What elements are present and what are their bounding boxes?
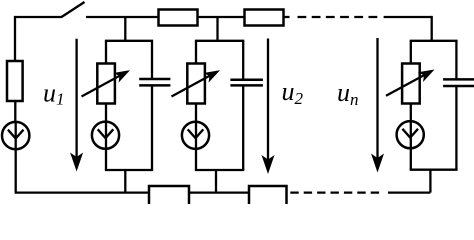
capacitor C1 top plate <box>139 78 170 81</box>
wire source branch bottom <box>15 149 17 192</box>
wire branch 1 bottom drop <box>124 170 126 193</box>
wire branch 2 left leg upper <box>195 41 197 64</box>
wire top rail left segment <box>15 17 62 61</box>
wire branch n left leg lower <box>410 104 412 170</box>
wire bottom rail dashed continuation <box>290 191 379 193</box>
arrowhead un <box>371 154 384 173</box>
current source I2 arrow chevron <box>188 129 204 138</box>
wire bottom rail left segment <box>15 191 149 193</box>
wire top rail stub after R2 <box>284 16 290 18</box>
arrowhead u1 <box>70 153 83 172</box>
wire top rail dashed continuation <box>298 16 380 18</box>
current source I0 arrow chevron <box>8 122 24 149</box>
resistor Rvn variable <box>402 64 420 104</box>
capacitor Cn top plate <box>443 78 474 81</box>
resistor R2 top rail <box>245 10 284 26</box>
wire branch 2 top bar <box>195 40 244 42</box>
resistor Rv2 variable <box>187 64 205 104</box>
wire branch 1 top bar <box>105 40 153 42</box>
wire branch 2 bottom bar <box>195 169 244 171</box>
wire top rail between R1 and R2 <box>198 16 245 18</box>
wire branch n top bar <box>410 40 458 42</box>
wire branch n left leg upper <box>410 41 412 64</box>
capacitor Cn bottom plate <box>443 85 474 88</box>
wire bottom rail right solid segment <box>388 191 430 193</box>
switch S1 blade <box>62 2 85 17</box>
wire branch 1 right leg lower <box>151 85 153 170</box>
wire branch 2 bottom drop <box>215 170 217 193</box>
arrowhead Rvn <box>418 65 437 82</box>
current source In circle <box>397 121 424 148</box>
capacitor C1 bottom plate <box>139 84 170 87</box>
resistor R0 source branch <box>7 61 23 101</box>
resistor R1 top rail <box>159 10 198 26</box>
arrow through Rvn <box>386 71 432 96</box>
wire branch 2 left leg lower <box>195 104 197 171</box>
wire branch n right leg upper <box>455 41 457 79</box>
wire feed drop to branch 1 <box>124 17 126 41</box>
current source I2 circle <box>182 122 209 149</box>
wire top rail right solid segment <box>384 16 432 18</box>
wire source branch middle <box>14 101 16 122</box>
arrow u2 <box>267 39 269 161</box>
wire branch 2 right leg lower <box>242 85 244 170</box>
resistor R4 bottom rail <box>249 186 287 208</box>
arrow u1 <box>75 39 77 158</box>
arrowhead Rv2 <box>203 65 222 82</box>
wire branch 1 left leg upper <box>105 41 107 64</box>
current source In arrow chevron <box>402 129 418 138</box>
wire branch 2 right leg upper <box>242 41 244 79</box>
wire branch 1 right leg upper <box>151 41 153 79</box>
arrowhead u2 <box>262 155 275 174</box>
wire branch 1 bottom bar <box>105 169 153 171</box>
arrow through Rv1 <box>82 72 128 97</box>
resistor R3 bottom rail <box>149 186 189 208</box>
wire bottom rail between R3 and R4 <box>189 191 249 193</box>
capacitor C2 top plate <box>230 79 263 82</box>
resistor Rv1 variable <box>97 64 115 104</box>
arrowhead Rv1 <box>113 65 132 82</box>
arrow through Rv2 <box>172 72 218 97</box>
wire feed drop to branch n <box>431 16 433 41</box>
arrow un <box>376 38 378 159</box>
wire branch n bottom drop <box>429 170 431 193</box>
current source I1 arrow chevron <box>98 129 114 138</box>
current source I0 circle <box>2 122 29 149</box>
capacitor C2 bottom plate <box>230 84 263 87</box>
wire branch n bottom bar <box>410 169 458 171</box>
wire feed drop to branch 2 <box>216 17 218 41</box>
wire branch n right leg lower <box>455 86 457 170</box>
wire top rail after switch <box>86 16 159 18</box>
current source I1 circle <box>92 122 119 149</box>
wire branch 1 left leg lower <box>105 104 107 171</box>
